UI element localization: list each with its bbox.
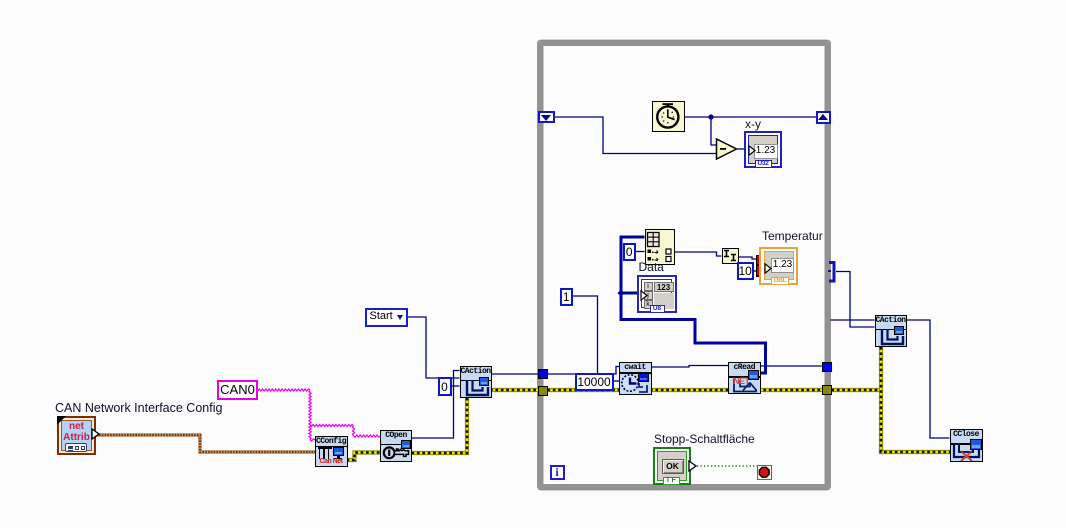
- cluster constant: net Attrib: [57, 416, 96, 455]
- label x-y: [745, 118, 761, 131]
- wire: error cluster CConfig to COpen: [347, 453, 381, 461]
- wire: Start enum to CAction1 opcode: [407, 317, 460, 378]
- numeric constant 0: [438, 377, 452, 396]
- divide (hidden) with coercion dots: [756, 255, 761, 277]
- wire: error cluster across loop through CWait and CRead: [542, 388, 826, 392]
- loop condition stop terminal: [757, 465, 773, 481]
- tunnel olive left: [538, 386, 548, 396]
- wire: COpen task handle to CAction1: [412, 371, 460, 439]
- node CAction (2): [875, 315, 907, 347]
- wire: error cluster junction to CAction2 and CClose: [881, 347, 950, 452]
- wire: CWait state to CRead: [651, 366, 728, 368]
- label Stopp-Schaltflaeche: [654, 433, 755, 446]
- wire: CAction2 task handle to CClose: [907, 320, 950, 438]
- numeric constant 0 (index): [623, 243, 637, 262]
- string constant CAN0: [217, 380, 258, 400]
- subtract function: [714, 137, 740, 162]
- wire: string CAN0 to CConfig (pink zigzag): [256, 389, 315, 441]
- wire: constant 0 to index array: [636, 251, 645, 253]
- numeric constant 10000: [575, 373, 614, 392]
- wire: task handle behind 10000 into CWait: [612, 367, 619, 375]
- wire: hidden enum bracket to CAction2 lower input: [836, 272, 875, 328]
- wire: constant 1 down to CWait: [572, 296, 598, 373]
- tunnel olive right: [822, 385, 832, 395]
- numeric constant 10: [737, 262, 754, 281]
- wire: data array branch to Data indicator: [621, 292, 637, 295]
- tunnel blue right: [822, 362, 832, 372]
- wire: tick count to right shift register: [684, 116, 816, 118]
- junction: tick count wire branch dot: [708, 114, 713, 119]
- right shift register: [816, 111, 832, 124]
- wire: error cluster COpen to CAction1: [412, 397, 468, 453]
- node CClose: [950, 429, 983, 462]
- numeric constant 1: [560, 288, 574, 307]
- hidden constant bracket: [828, 260, 838, 284]
- label Temperatur: [762, 230, 823, 243]
- wire: swap bytes to divide: [739, 257, 757, 259]
- node CRead: [728, 362, 761, 395]
- wire: CRead to right blue tunnel: [760, 365, 822, 367]
- node CWait: [619, 362, 652, 395]
- node CConfig: [315, 436, 348, 467]
- boolean OK button terminal: [653, 447, 692, 486]
- wire: CAction1 task handle to loop tunnel: [490, 373, 542, 375]
- wire: error cluster right tunnel to junction: [826, 388, 881, 392]
- wire: boolean OK button to loop condition (green dotted): [697, 465, 757, 467]
- tick count clock: [652, 101, 685, 133]
- wire: string branch to COpen (pink zigzag): [310, 425, 381, 438]
- wire: CRead data array up and around to index array: [621, 237, 766, 373]
- swap bytes function: [722, 248, 739, 264]
- tunnel blue left: [538, 369, 548, 379]
- wire: constant 10 to divide: [754, 270, 757, 272]
- indicator x-y U32: [744, 131, 782, 168]
- wire: border to CAction2 upper input: [831, 319, 875, 321]
- wire: index array element to swap bytes: [675, 252, 722, 256]
- index array function: [645, 229, 676, 265]
- iteration terminal i: [550, 465, 565, 480]
- junction: data array wire branch dot: [617, 289, 624, 296]
- indicator Data U8 array: [637, 275, 677, 313]
- wire: subtract result to x-y indicator: [737, 148, 744, 150]
- node CAction (1): [460, 366, 492, 398]
- wire: left shift register to subtract y input: [554, 117, 717, 154]
- wire: junction down to subtract x input: [711, 117, 717, 145]
- enum constant Start: [365, 308, 408, 327]
- wire: constant 0 to CAction1: [451, 385, 460, 387]
- label: CAN Network Interface Config: [55, 402, 222, 415]
- wire: constant 10000 to CWait timeout: [613, 380, 619, 382]
- wire: task handle tunnel toward CWait: [547, 373, 576, 375]
- wire: error cluster CAction1 to loop tunnel: [490, 388, 542, 392]
- indicator Temperatur DBL: [759, 247, 798, 285]
- left shift register: [538, 111, 555, 124]
- node COpen: [380, 430, 412, 462]
- label Data: [639, 261, 664, 274]
- wire: CAN interface config cluster (brown) to CConfig: [95, 435, 315, 452]
